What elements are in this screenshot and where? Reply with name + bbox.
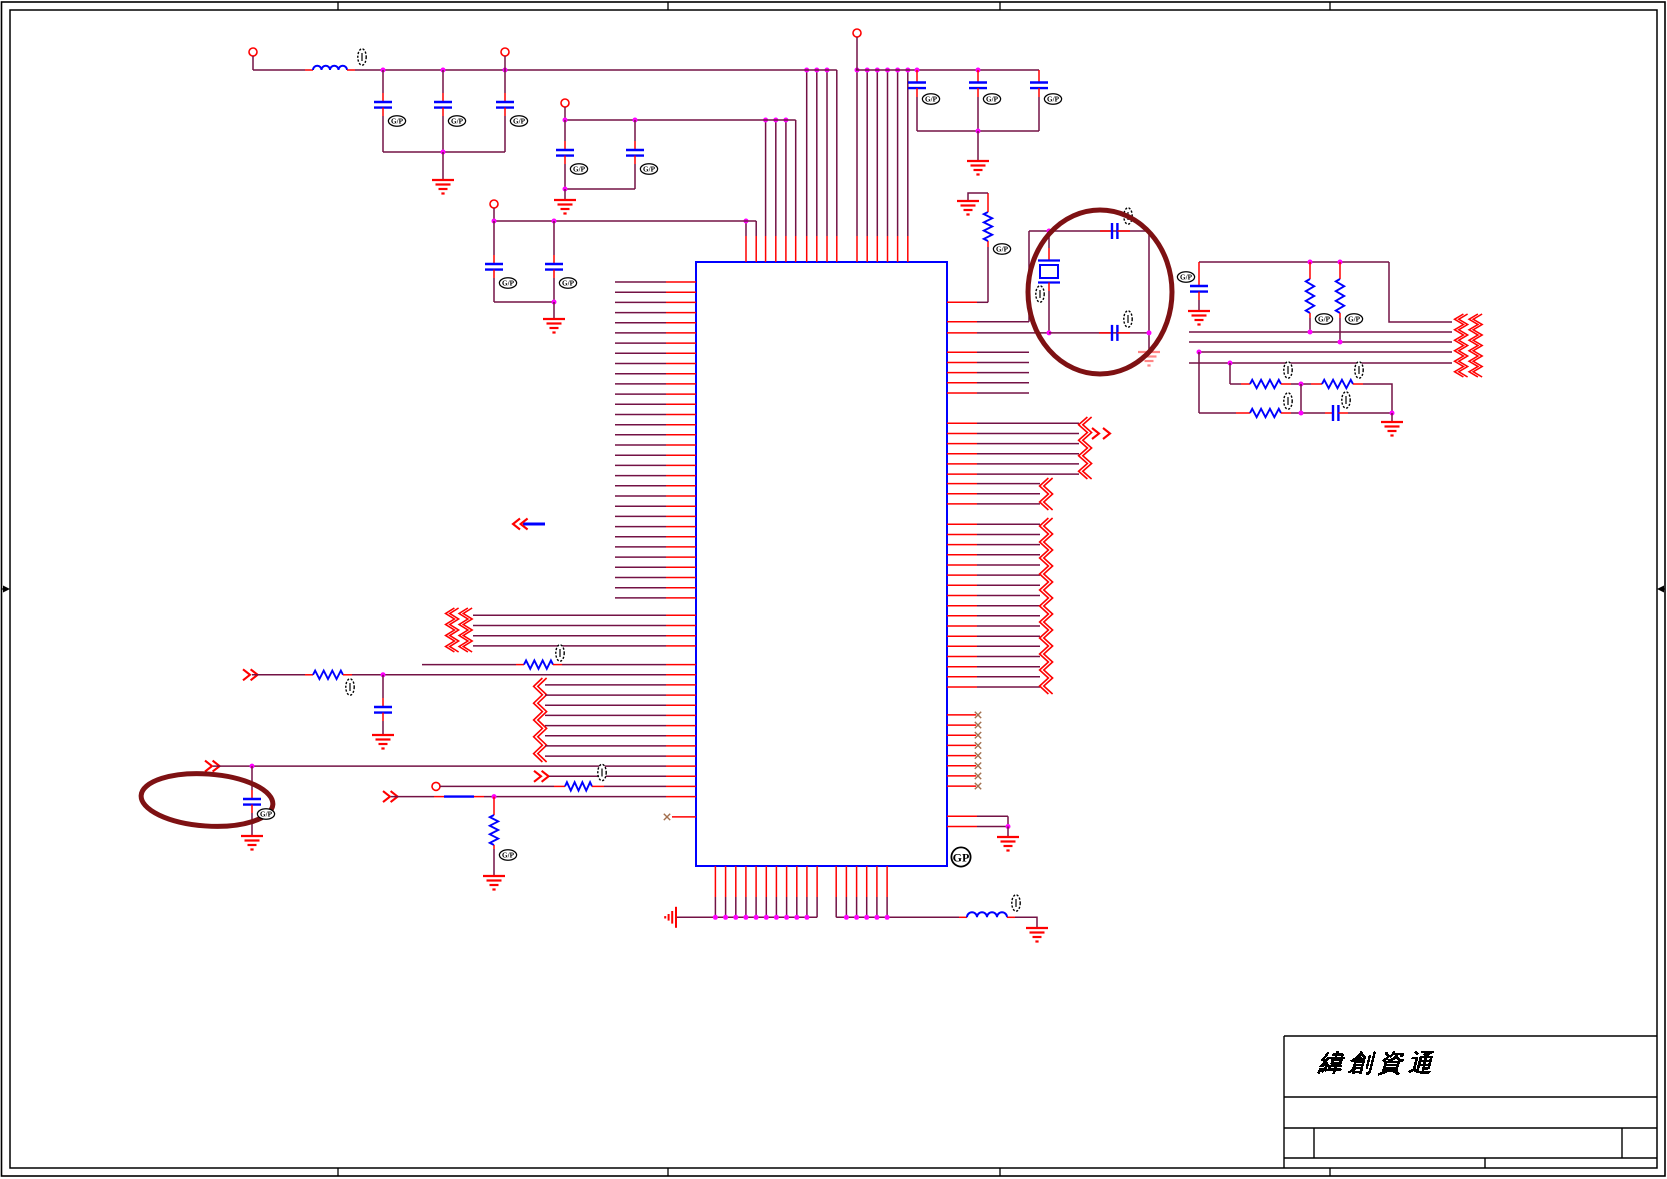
junction dots rail1 left drops xyxy=(804,68,829,73)
resistor R8 red stub left xyxy=(516,664,524,666)
junction dot ground pair xyxy=(1006,824,1011,829)
torn bus marker left bundle A xyxy=(446,608,459,652)
resistor R3 xyxy=(1306,279,1314,313)
IC left pin stubs group xyxy=(615,282,696,598)
capacitor C6 xyxy=(485,264,503,270)
wire net C row to resistor R7 xyxy=(1199,412,1236,414)
wire ground pin corner xyxy=(1007,816,1009,826)
stem to ground group4 xyxy=(977,131,979,160)
stem to ground right network xyxy=(1391,413,1393,421)
bus wire net A xyxy=(1189,331,1452,333)
IC U1 GP label xyxy=(951,847,970,866)
junction dot net C left xyxy=(1197,350,1202,355)
resistor R4 lead top xyxy=(1339,262,1341,279)
wire mid junction riser xyxy=(1300,384,1302,413)
ground right pair xyxy=(997,837,1019,851)
wire T6 to resistor R10 xyxy=(440,785,554,787)
ground at bottom right of L2 xyxy=(1026,928,1048,942)
svg-text:G/P: G/P xyxy=(260,811,273,819)
capacitor C2 lead top xyxy=(442,70,444,93)
terminal T4 xyxy=(490,200,498,208)
resistor R11 vertical xyxy=(490,815,498,845)
IC top pins group T2 wires from 2nd rail xyxy=(766,120,796,262)
resistor R8 xyxy=(524,660,553,668)
capacitor C7 xyxy=(545,264,563,270)
svg-text:G/P: G/P xyxy=(1318,316,1331,324)
resistor R10 red stub left xyxy=(554,785,565,787)
svg-text:G/P: G/P xyxy=(643,166,656,174)
wire net F xyxy=(213,765,666,767)
svg-text:G/P: G/P xyxy=(502,852,515,860)
inductor L2 red stub left xyxy=(959,916,967,918)
capacitor C14 lead top xyxy=(382,675,384,698)
wire to resistor R8 xyxy=(422,664,516,666)
wire net D to resistor R5 xyxy=(1230,383,1241,385)
capacitor C15 lead top xyxy=(251,766,253,790)
capacitor C13 label oval xyxy=(1342,392,1350,408)
chevron on blue connector xyxy=(513,519,528,530)
wire net G xyxy=(549,775,666,777)
caps group2 bottom bus wire xyxy=(565,188,635,190)
series capacitor C10 label oval xyxy=(1124,208,1132,224)
capacitor C2 G/P label xyxy=(448,116,465,126)
junction dot group4 bottom xyxy=(976,129,981,134)
chevrons on R1 wire xyxy=(1092,428,1110,439)
junction dots power rail caps xyxy=(381,68,508,73)
wire R7 to junction xyxy=(1291,412,1325,414)
capacitor C2 lead bottom xyxy=(442,108,444,116)
inductor L1 label oval xyxy=(358,49,366,65)
capacitor C6 lead top xyxy=(493,221,495,255)
wire net C riser down xyxy=(1198,352,1200,413)
inductor L2 xyxy=(967,912,1007,917)
capacitor C15 lead bottom xyxy=(251,805,253,813)
IC right ground pins pair xyxy=(947,816,1008,826)
resistor R10 xyxy=(565,782,592,790)
IC right free pin stubs group xyxy=(947,352,1029,393)
terminal T3 xyxy=(561,99,569,107)
capacitor C6 G/P label xyxy=(499,278,516,288)
resistor R4 G/P label xyxy=(1345,314,1362,324)
rail4 right corner wire xyxy=(1389,262,1452,322)
junction dots rail2 caps xyxy=(563,118,638,123)
wire R5 to junction xyxy=(1291,383,1311,385)
power rail right segment wire xyxy=(856,69,1039,71)
IC right bundle R3 wires xyxy=(947,524,1040,687)
IC U1 body xyxy=(696,262,947,866)
IC left no-connect pin xyxy=(672,816,696,818)
capacitor C15 xyxy=(243,799,261,805)
IC right pin XTAL2 wire bottom rail xyxy=(947,332,1049,334)
IC top pins group T1 wires from 3rd rail xyxy=(746,221,756,262)
junction dot net F cap xyxy=(250,764,255,769)
svg-text:GP: GP xyxy=(953,851,970,865)
stem to ground group2 xyxy=(564,189,566,199)
capacitor C12 lead top xyxy=(1198,262,1200,286)
svg-text:G/P: G/P xyxy=(925,96,938,104)
junction dots bottom bus B2 xyxy=(844,915,890,920)
capacitor C9 lead bottom xyxy=(977,88,979,97)
capacitor C12 xyxy=(1190,286,1208,292)
border tick marks top xyxy=(337,2,339,10)
ground group4 xyxy=(967,161,989,175)
resistor R3 G/P label xyxy=(1315,314,1332,324)
rail 3 wire xyxy=(494,220,756,222)
svg-text:G/P: G/P xyxy=(513,118,526,126)
junction dot ground corner xyxy=(1390,411,1395,416)
junction dots rail3 caps xyxy=(492,219,557,224)
ground above R2 xyxy=(957,201,979,215)
resistor R8 label oval xyxy=(556,645,564,661)
capacitor C1 lead bottom xyxy=(382,108,384,116)
ground group3 xyxy=(543,319,565,333)
capacitor C10 lead bottom xyxy=(1038,88,1040,97)
resistor R11 lead bottom xyxy=(493,845,495,849)
terminal T2 on power rail xyxy=(501,48,509,56)
resistor R6 red stub left xyxy=(1311,383,1322,385)
terminal T5 top xyxy=(853,29,861,37)
svg-text:G/P: G/P xyxy=(1348,316,1361,324)
wire R9 to IC xyxy=(352,674,666,676)
junction dot crystal top xyxy=(1047,229,1052,234)
IC top pins group T4 wires from power rail right xyxy=(857,70,908,262)
junction dot group3 bottom xyxy=(552,300,557,305)
resistor R2 red stub top xyxy=(987,193,989,212)
series capacitor C10 xyxy=(1112,223,1117,239)
resistor R3 lead top xyxy=(1309,262,1311,279)
terminal T1 top-left xyxy=(249,48,257,56)
capacitor C9 xyxy=(969,83,987,89)
inductor L1 red stub left xyxy=(305,69,313,71)
capacitor C5 lead top xyxy=(634,120,636,141)
chevron input net H xyxy=(383,791,398,802)
wire T1 to inductor xyxy=(253,69,305,71)
resistor R11 G/P label xyxy=(499,850,516,860)
capacitor C10 lead top xyxy=(1038,70,1040,83)
capacitor C4 lead bottom xyxy=(564,156,566,164)
capacitor C13 red stub right xyxy=(1338,412,1348,414)
junction dot R5-R6 xyxy=(1299,382,1304,387)
series capacitor C10 red stub right xyxy=(1117,230,1130,232)
wire L2 to ground corner xyxy=(1015,917,1037,927)
net G label oval xyxy=(598,764,606,780)
caps group3 bottom bus wire xyxy=(494,301,554,303)
crystal bottom rail wire xyxy=(1049,332,1149,334)
wire T4 riser xyxy=(493,208,495,221)
capacitor C3 lead bottom xyxy=(504,108,506,116)
series capacitor C11 red stub left xyxy=(1099,332,1112,334)
junction dot net H xyxy=(492,794,497,799)
inductor L2 red stub right xyxy=(1007,916,1015,918)
torn bus marker left bundle B xyxy=(534,678,547,762)
capacitor C1 G/P label xyxy=(388,116,405,126)
wire R2 top to ground xyxy=(968,193,988,200)
capacitor C5 G/P label xyxy=(640,164,657,174)
resistor R9 label oval xyxy=(346,679,354,695)
svg-text:G/P: G/P xyxy=(986,96,999,104)
wire T2 riser xyxy=(504,56,506,70)
torn bus marker right R1 xyxy=(1079,417,1092,479)
bottom ground bus B1 wire xyxy=(676,916,817,918)
crystal Y1 label oval xyxy=(1036,286,1044,302)
stem to ground right pair xyxy=(1007,827,1009,837)
caps group4 bottom bus wire xyxy=(917,130,1039,132)
capacitor C3 xyxy=(496,102,514,108)
series capacitor C10 red stub left xyxy=(1100,230,1112,232)
bus wire net C xyxy=(1199,351,1452,353)
bottom bus B2 wire xyxy=(836,916,959,918)
junction dot crystal right rail xyxy=(1147,330,1152,335)
resistor R5 xyxy=(1250,380,1281,388)
inductor L2 label oval xyxy=(1012,895,1020,911)
resistor R7 label oval xyxy=(1284,393,1292,409)
svg-text:G/P: G/P xyxy=(1047,96,1060,104)
svg-text:G/P: G/P xyxy=(996,246,1009,254)
resistor R4 xyxy=(1336,279,1344,313)
stem to ground group3 xyxy=(553,302,555,318)
svg-text:G/P: G/P xyxy=(1180,274,1193,282)
capacitor C3 G/P label xyxy=(510,116,527,126)
annotation ellipse around crystal xyxy=(1028,210,1172,374)
capacitor C5 lead bottom xyxy=(634,156,636,164)
inductor L1 xyxy=(313,66,347,70)
crystal right rail riser xyxy=(1148,231,1150,351)
resistor R6 label oval xyxy=(1355,362,1363,378)
wire net E to resistor R9 xyxy=(252,674,305,676)
rail 2 wire xyxy=(565,119,796,121)
resistor R9 red stub left xyxy=(305,674,313,676)
wire T3 riser xyxy=(564,107,566,120)
ground below R11 xyxy=(483,876,505,890)
title block frame xyxy=(1284,1036,1657,1168)
resistor R7 xyxy=(1250,409,1281,417)
stem to ground group1 xyxy=(442,152,444,179)
bus wire net B xyxy=(1189,341,1452,343)
IC right bundle R2 wires xyxy=(947,484,1040,504)
capacitor C4 G/P label xyxy=(570,164,587,174)
chevron input net E xyxy=(243,669,258,680)
capacitor C10 G/P label xyxy=(1044,94,1061,104)
capacitor C9 G/P label xyxy=(983,94,1000,104)
IC right pin XTAL drive wire to resistor R2 xyxy=(947,301,988,303)
rail 4 wire xyxy=(1199,261,1389,263)
torn bus marker right R3 xyxy=(1040,518,1053,694)
capacitor C9 lead top xyxy=(977,70,979,83)
left bundle A wires xyxy=(473,615,696,646)
border arrow left xyxy=(2,586,10,593)
ground left-facing at bottom bus xyxy=(665,907,676,928)
resistor R5 red stub left xyxy=(1241,383,1250,385)
resistor R5 label oval xyxy=(1284,362,1292,378)
capacitor C3 lead top xyxy=(504,70,506,93)
IC bottom pins group B2 xyxy=(836,866,887,917)
resistor R11 lead top xyxy=(493,797,495,815)
inductor L1 red stub right xyxy=(347,69,355,71)
junction dot net B xyxy=(1338,340,1343,345)
border arrow right xyxy=(1657,586,1665,593)
power rail 1 wire xyxy=(355,69,837,71)
capacitor C8 lead top xyxy=(916,70,918,83)
resistor R2 G/P label xyxy=(993,244,1010,254)
net H red segment right xyxy=(474,796,484,798)
junction dots rail4 xyxy=(1308,260,1343,265)
resistor R9 xyxy=(313,671,343,679)
svg-text:G/P: G/P xyxy=(502,280,515,288)
left bundle B wires xyxy=(545,685,696,756)
capacitor C8 xyxy=(908,83,926,89)
wire net H lead xyxy=(391,796,434,798)
capacitor C6 lead bottom xyxy=(493,270,495,278)
resistor R6 xyxy=(1322,380,1353,388)
svg-text:G/P: G/P xyxy=(391,118,404,126)
capacitor C4 xyxy=(556,150,574,156)
ground group1 xyxy=(432,180,454,194)
svg-text:G/P: G/P xyxy=(562,280,575,288)
svg-text:G/P: G/P xyxy=(573,166,586,174)
junction dot net E cap xyxy=(381,672,386,677)
capacitor C2 xyxy=(434,102,452,108)
wire T1 riser xyxy=(252,56,254,70)
series capacitor C11 label oval xyxy=(1124,311,1132,327)
terminal T6 xyxy=(432,782,440,790)
capacitor C15 G/P label xyxy=(257,809,274,819)
caps group1 bottom bus wire xyxy=(383,151,505,153)
capacitor C1 xyxy=(374,102,392,108)
resistor R8 red stub right xyxy=(553,664,562,666)
junction dot group1 bottom xyxy=(441,150,446,155)
bus wire net D xyxy=(1189,362,1452,364)
capacitor C8 G/P label xyxy=(922,94,939,104)
ground below C15 xyxy=(241,836,263,850)
IC top pins group T3 wires from power rail left xyxy=(807,70,837,262)
ground right network xyxy=(1381,422,1403,436)
resistor R6 red stub right xyxy=(1353,383,1363,385)
IC right bundle R1 wires xyxy=(947,423,1079,474)
capacitor C14 xyxy=(374,707,392,713)
resistor R7 red stub right xyxy=(1281,412,1291,414)
wire crystal left riser xyxy=(1028,231,1030,322)
resistor R10 red stub right xyxy=(592,785,604,787)
capacitor C12 lead bottom xyxy=(1198,292,1200,300)
capacitor C5 xyxy=(626,150,644,156)
capacitor C7 lead top xyxy=(553,221,555,255)
ground below C14 xyxy=(372,735,394,749)
series capacitor C11 xyxy=(1112,325,1117,341)
crystal Y1 xyxy=(1038,261,1060,283)
junction dot net D xyxy=(1228,361,1233,366)
border tick marks bottom xyxy=(337,1168,339,1176)
crystal Y1 stem top xyxy=(1048,231,1050,248)
wire R6 to corner xyxy=(1363,384,1392,413)
wire R10 to IC xyxy=(604,785,666,787)
ground below C12 xyxy=(1188,311,1210,325)
wire net D riser down xyxy=(1229,363,1231,384)
resistor R9 red stub right xyxy=(343,674,352,676)
junction dot net A xyxy=(1308,330,1313,335)
junction dot row2 xyxy=(1299,411,1304,416)
resistor R2 red stub bottom xyxy=(987,241,989,247)
annotation ellipse bottom left xyxy=(139,769,274,830)
blue connector arrow mid left xyxy=(523,523,545,526)
junction dot crystal bottom xyxy=(1047,330,1052,335)
resistor R3 lead bottom xyxy=(1309,313,1311,318)
net H red segment left xyxy=(434,796,444,798)
series capacitor C11 red stub right xyxy=(1117,332,1130,334)
junction dot group2 bottom xyxy=(563,187,568,192)
resistor R7 red stub left xyxy=(1236,412,1250,414)
net H blue jumper xyxy=(444,795,474,797)
resistor R4 lead bottom xyxy=(1339,313,1341,318)
junction dots rail right caps xyxy=(915,68,981,73)
no-connect x mark left xyxy=(664,814,670,820)
ground below crystal right rail xyxy=(1138,352,1160,366)
wire T5 riser xyxy=(856,37,858,70)
wire R8 to IC xyxy=(562,664,666,666)
crystal Y1 stem bottom xyxy=(1048,283,1050,292)
capacitor C8 lead bottom xyxy=(916,88,918,97)
IC right pin XTAL1 wire xyxy=(947,321,1029,323)
capacitor C13 red stub left xyxy=(1325,412,1333,414)
torn bus marker far right xyxy=(1455,314,1468,377)
wire net H to IC xyxy=(484,796,666,798)
capacitor C1 lead top xyxy=(382,70,384,93)
capacitor C14 lead bottom xyxy=(382,713,384,721)
junction dot rail3 drop xyxy=(744,219,749,224)
resistor R2 vertical xyxy=(984,212,992,241)
junction dots bottom bus B1 xyxy=(713,915,810,920)
title block company name text xyxy=(1317,1051,1434,1076)
wire C13 to ground corner xyxy=(1348,412,1392,414)
chevron input net F xyxy=(205,761,220,772)
capacitor C13 series xyxy=(1333,405,1338,421)
IC bottom pins group B1 xyxy=(715,866,817,917)
junction dots rail2 drops xyxy=(763,118,788,123)
ground group2 xyxy=(554,200,576,214)
capacitor C4 lead top xyxy=(564,120,566,141)
chevron input net G xyxy=(534,771,549,782)
torn bus marker right R2 xyxy=(1040,478,1053,510)
no-connect x marks right xyxy=(975,712,981,790)
capacitor C12 G/P label xyxy=(1177,272,1194,282)
wire resistor R2 riser xyxy=(987,247,989,302)
capacitor C7 lead bottom xyxy=(553,270,555,278)
svg-text:G/P: G/P xyxy=(451,118,464,126)
crystal top rail wire xyxy=(1029,230,1149,232)
resistor R5 red stub right xyxy=(1281,383,1291,385)
capacitor C10 xyxy=(1030,83,1048,89)
junction dots rail1 right drops xyxy=(855,68,911,73)
capacitor C7 G/P label xyxy=(559,278,576,288)
IC right no-connect pins group xyxy=(947,715,976,786)
